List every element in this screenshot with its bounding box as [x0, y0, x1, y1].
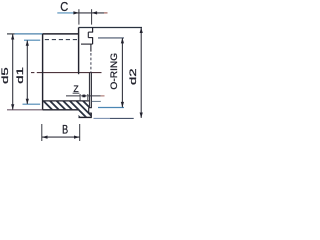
hatch band top edge: [43, 100, 90, 102]
short extension line right of flange: [92, 100, 101, 102]
body top edge: [43, 33, 79, 35]
B arrows: [42, 136, 48, 139]
o-ring groove lower notch: [89, 108, 92, 113]
O-RING arrows: [121, 38, 124, 44]
d2 arrows: [140, 28, 143, 34]
Z arrows (back to back): [80, 94, 85, 97]
d1 dimension line: [26, 40, 28, 104]
d5 top extension: [7, 33, 15, 35]
B extension line left: [41, 124, 43, 141]
arrow C right: [92, 11, 98, 14]
flange right face lower: [90, 73, 92, 118]
body left face: [42, 34, 44, 110]
svg-text:d5: d5: [0, 67, 10, 84]
d1 bottom extension: [23, 103, 41, 105]
svg-text:O-RING: O-RING: [109, 53, 120, 90]
hatch body wall (section): [37, 94, 141, 125]
hatch flange block (section): [37, 94, 141, 125]
svg-text:d1: d1: [15, 67, 25, 84]
arrow C left: [73, 11, 79, 14]
step line at flange root: [81, 43, 93, 45]
Z underline: [73, 92, 80, 94]
flange right face below groove: [92, 38, 94, 45]
d1 arrows: [26, 40, 29, 46]
o-ring groove bottom (vertical): [87, 32, 89, 38]
Z dimension line: [66, 95, 101, 97]
o-ring groove upper edge: [88, 31, 93, 33]
B dimension line: [42, 136, 80, 138]
d5 arrows: [11, 34, 14, 40]
flange left face / body right face: [78, 28, 80, 73]
B extension line right: [79, 124, 81, 141]
d2 bottom extension: [94, 117, 111, 119]
svg-text:C: C: [60, 0, 68, 14]
d1 top extension: [24, 39, 40, 41]
groove wall vertical solid: [90, 44, 92, 52]
bore hidden line (dashed): [45, 39, 79, 41]
groove wall vertical below centerline: [88, 73, 90, 108]
extension line C left: [78, 9, 80, 24]
svg-text:d2: d2: [128, 68, 138, 85]
svg-text:B: B: [62, 124, 68, 136]
o-ring groove lower edge: [88, 37, 93, 39]
centerline: [31, 72, 102, 74]
flange bottom edge: [79, 116, 92, 118]
d5 bottom extension: [7, 109, 43, 111]
extension line C right: [91, 9, 93, 24]
O-RING dimension line: [121, 38, 123, 107]
O-RING top extension: [98, 37, 124, 39]
flange top edge + d2 top extension: [79, 27, 142, 29]
flange right face upper: [92, 27, 94, 32]
dimension line C: [57, 12, 73, 14]
d2 dimension line: [140, 28, 142, 118]
hatch band bottom edge: [43, 109, 79, 111]
O-RING bottom extension: [98, 107, 124, 109]
groove wall vertical hidden (dashed): [90, 53, 92, 73]
Z extension ticks: [80, 94, 88, 100]
svg-text:Z: Z: [73, 84, 79, 95]
d5 dimension line: [12, 34, 14, 109]
